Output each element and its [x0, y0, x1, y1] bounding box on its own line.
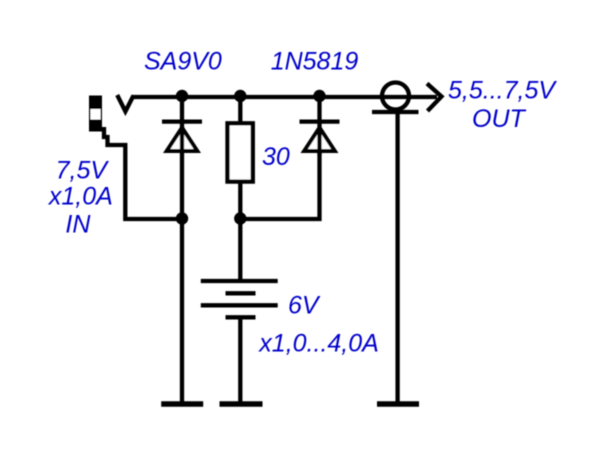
battery G1	[201, 281, 278, 317]
svg-text:1N5819: 1N5819	[271, 48, 359, 76]
ground 3	[377, 401, 419, 407]
junction dot node B	[234, 90, 246, 102]
svg-text:x1,0A: x1,0A	[48, 182, 113, 210]
svg-text:OUT: OUT	[472, 105, 527, 133]
svg-text:x1,0...4,0A: x1,0...4,0A	[258, 329, 379, 357]
wire jack sleeve to input node	[104, 127, 182, 219]
ground 1	[161, 401, 203, 407]
wire resistor bottom to 1N5819 anode	[240, 153, 319, 219]
junction dot node A	[176, 90, 188, 102]
svg-text:IN: IN	[65, 211, 91, 239]
junction dot node C	[313, 90, 325, 102]
svg-text:6V: 6V	[288, 292, 321, 320]
connector J1 body (DC jack)	[89, 96, 102, 132]
junction dot node E	[234, 212, 246, 224]
wire battery to ground	[238, 317, 242, 402]
junction dot node D	[176, 212, 188, 224]
wire SA9V0 to ground	[180, 219, 184, 402]
svg-text:SA9V0: SA9V0	[144, 48, 222, 76]
wire top rail	[132, 95, 438, 99]
connector X1 (output socket)	[372, 83, 419, 113]
arrow OUT	[427, 84, 442, 112]
svg-text:5,5...7,5V: 5,5...7,5V	[448, 77, 557, 105]
svg-text:30: 30	[262, 143, 290, 171]
diode VD1 SA9V0 (TVS, cathode up)	[162, 97, 202, 219]
resistor R1 30	[228, 97, 253, 219]
wire battery top	[238, 219, 242, 281]
diode VD2 1N5819 (Schottky, cathode up)	[300, 97, 340, 155]
connector J1 pin contact	[117, 95, 133, 111]
wire output socket to ground	[395, 114, 399, 402]
svg-text:7,5V: 7,5V	[56, 156, 110, 184]
ground 2	[220, 401, 263, 407]
